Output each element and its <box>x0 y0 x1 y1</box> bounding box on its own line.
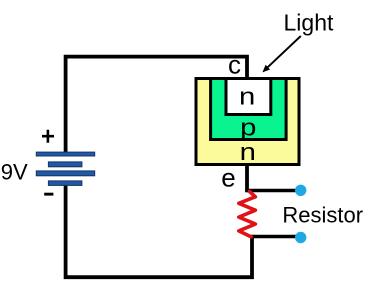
battery B1 plate 2 (short) <box>48 162 82 167</box>
battery value label 9V <box>1 159 28 184</box>
svg-text:c: c <box>228 49 241 79</box>
svg-text:9V: 9V <box>1 159 28 184</box>
battery - terminal symbol <box>44 193 53 196</box>
svg-text:e: e <box>221 163 235 193</box>
svg-text:Light: Light <box>284 10 334 36</box>
battery B1 plate 3 (long) <box>36 171 94 176</box>
wire: resistor top tap to terminal node <box>247 189 299 192</box>
label n (emitter region) <box>240 139 256 166</box>
collector pin label c <box>228 49 241 79</box>
phototransistor body: n emitter region (yellow outer box) <box>196 79 299 165</box>
label Light <box>284 10 334 36</box>
battery B1 plate 4 (short, -) <box>48 181 82 186</box>
wire: bottom loop from battery - terminal down, across and up to resistor bottom <box>66 184 252 277</box>
svg-text:n: n <box>240 139 256 166</box>
arrow: light ray pointing into transistor <box>262 36 300 72</box>
svg-text:Resistor: Resistor <box>282 202 363 227</box>
svg-text:p: p <box>240 114 256 141</box>
label p (base region) <box>240 114 256 141</box>
wire: emitter lead from transistor down to resistor top junction <box>245 165 249 192</box>
battery B1 (9V) plate 1 (long, +) <box>36 152 94 156</box>
emitter pin label e <box>221 163 235 193</box>
svg-text:n: n <box>239 83 255 110</box>
resistor R (red zigzag) <box>239 192 256 237</box>
node: bottom terminal dot <box>295 232 306 243</box>
node: top terminal dot <box>295 185 306 196</box>
label n (collector region) <box>239 83 255 110</box>
wire: resistor bottom tap to terminal node <box>250 235 299 238</box>
battery + terminal symbol <box>42 130 54 143</box>
phototransistor: p base region (green box) <box>211 79 287 140</box>
phototransistor: n collector region (white inner box) <box>226 79 271 115</box>
wire: left/top loop from battery + terminal up and across to collector lead <box>66 57 247 153</box>
label Resistor <box>282 202 363 227</box>
